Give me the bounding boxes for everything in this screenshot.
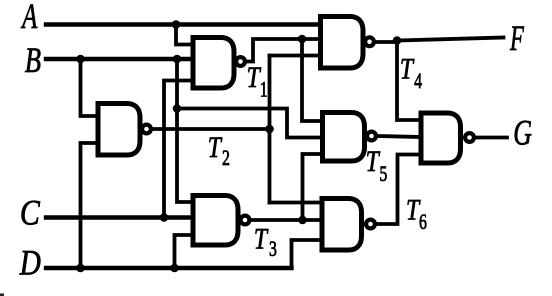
svg-text:D: D <box>19 244 41 284</box>
svg-text:3: 3 <box>269 238 277 262</box>
svg-text:T: T <box>254 222 269 255</box>
svg-text:T: T <box>400 52 415 85</box>
svg-text:2: 2 <box>222 146 230 170</box>
svg-text:4: 4 <box>414 69 422 93</box>
svg-text:6: 6 <box>419 210 427 234</box>
svg-text:5: 5 <box>379 162 387 186</box>
svg-text:1: 1 <box>260 78 268 102</box>
svg-text:C: C <box>20 194 41 233</box>
svg-text:G: G <box>513 112 532 152</box>
svg-text:F: F <box>509 18 524 59</box>
svg-text:A: A <box>20 0 37 36</box>
svg-text:T: T <box>208 130 223 163</box>
svg-text:B: B <box>25 40 41 80</box>
svg-text:T: T <box>366 145 381 178</box>
